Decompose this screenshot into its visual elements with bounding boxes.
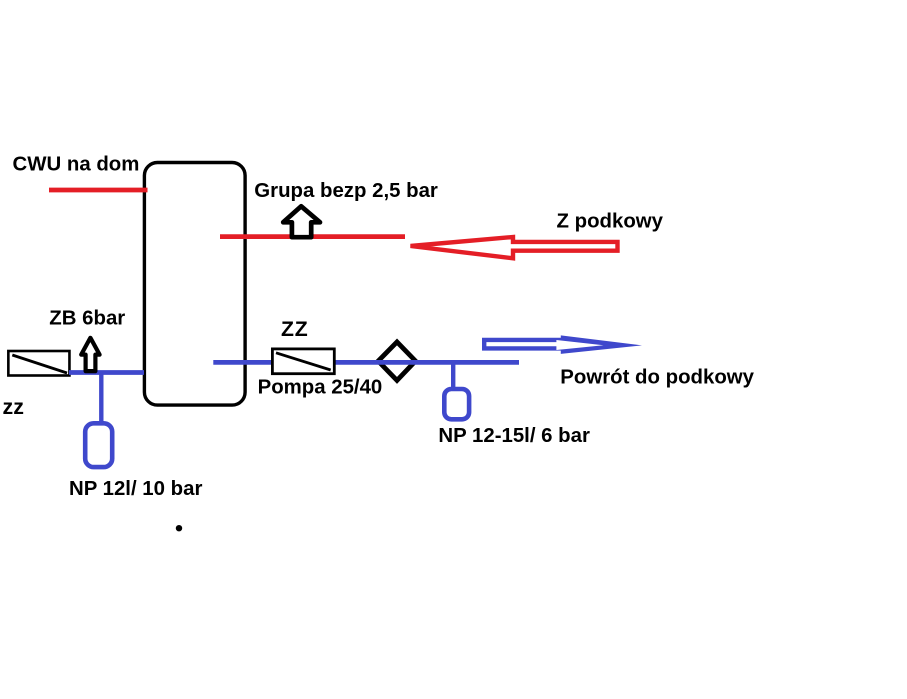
label zz <box>3 395 24 419</box>
expansion vessel NP 12l <box>85 423 112 467</box>
label ZB 6bar <box>49 308 125 330</box>
pipe blue drop to expansion vessel NP12 <box>99 372 103 424</box>
label Z podkowy <box>557 211 664 233</box>
label Pompa 25/40 <box>258 377 383 399</box>
label NP 12-15l/ 6 bar <box>438 425 590 447</box>
svg-text:zz: zz <box>3 395 24 419</box>
pipe red CWU (hot water out) <box>49 188 148 193</box>
svg-text:Pompa 25/40: Pompa 25/40 <box>258 377 383 399</box>
svg-text:ZZ: ZZ <box>281 318 308 341</box>
red flow arrow (from horseshoe, pointing left) <box>411 237 618 258</box>
svg-text:ZB 6bar: ZB 6bar <box>49 308 125 330</box>
label ZZ <box>281 318 308 341</box>
svg-text:NP 12-15l/ 6 bar: NP 12-15l/ 6 bar <box>438 425 590 447</box>
label Grupa bezp 2,5 bar <box>254 180 438 202</box>
label NP 12l/ 10 bar <box>69 478 202 500</box>
svg-text:NP 12l/ 10 bar: NP 12l/ 10 bar <box>69 478 202 500</box>
svg-text:Powrót do podkowy: Powrót do podkowy <box>560 366 754 388</box>
svg-text:Z podkowy: Z podkowy <box>557 211 664 233</box>
safety valve up arrow (ZB) <box>81 338 99 371</box>
valve ZZ (rect with diagonal) <box>272 349 334 374</box>
tank (buffer/boiler vessel) <box>144 163 245 406</box>
expansion vessel NP 12-15l <box>444 389 469 419</box>
pipe blue drop to expansion vessel NP12-15 <box>451 362 455 390</box>
svg-text:Grupa bezp 2,5 bar: Grupa bezp 2,5 bar <box>254 180 438 202</box>
stray dot <box>176 525 182 531</box>
svg-text:CWU na dom: CWU na dom <box>13 153 140 175</box>
pump (diamond) <box>378 342 415 381</box>
pipe blue return line <box>213 360 519 365</box>
blue flow arrow (to horseshoe, pointing right) <box>482 335 642 354</box>
label Powrot do podkowy <box>560 366 754 388</box>
pipe red supply (Z podkowy) <box>220 234 405 239</box>
safety-group up arrow <box>283 206 320 237</box>
valve zz (left, rect with diagonal) <box>8 351 69 376</box>
label CWU na dom <box>13 153 140 175</box>
pipe blue cold feed (valve to tank) <box>69 370 144 375</box>
